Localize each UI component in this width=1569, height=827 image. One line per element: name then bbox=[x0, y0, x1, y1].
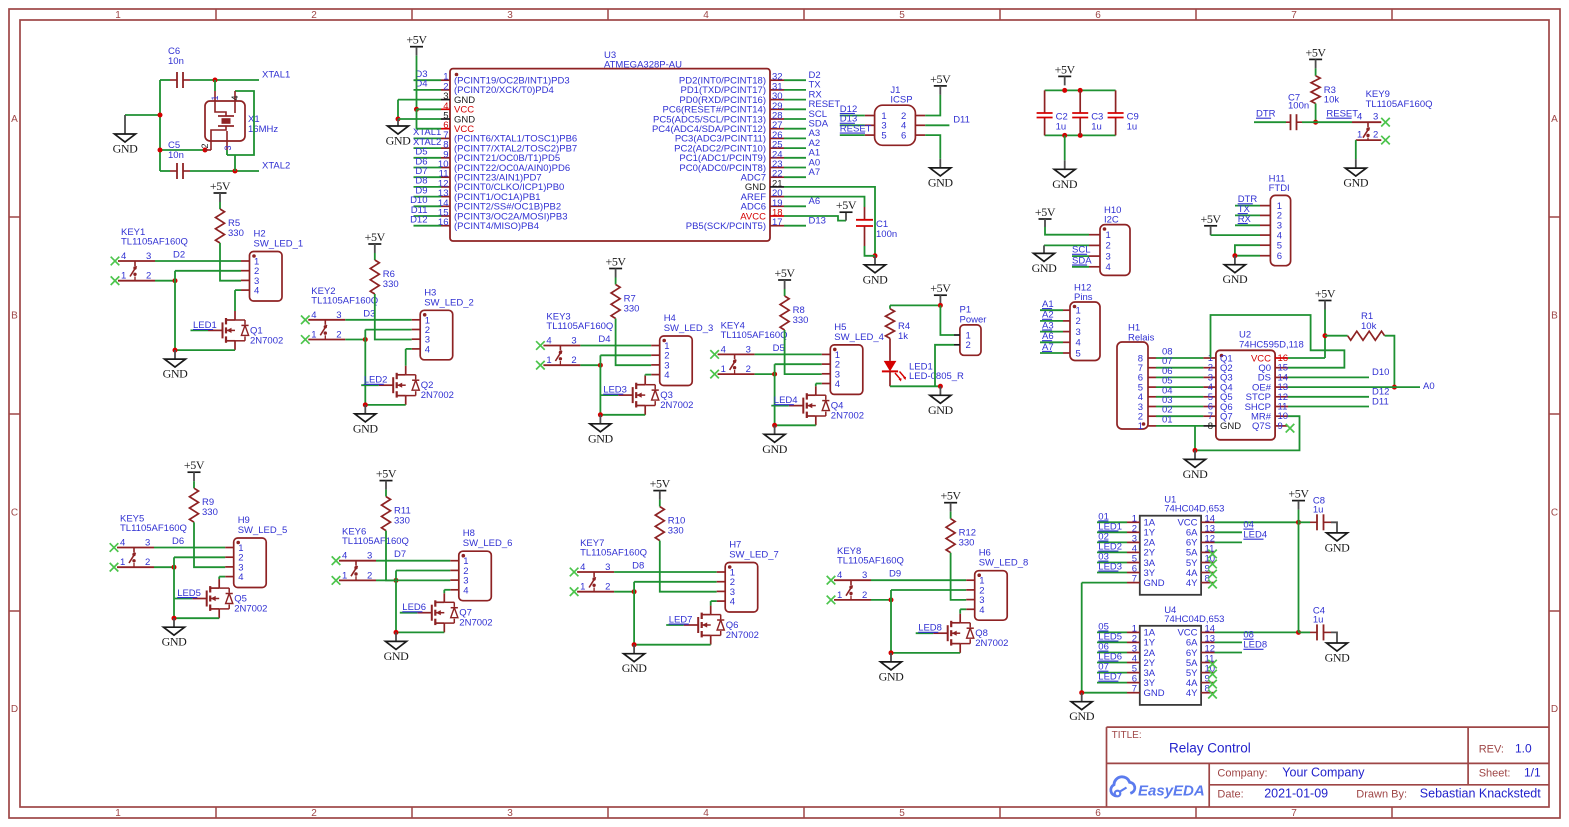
svg-text:2N7002: 2N7002 bbox=[250, 335, 283, 346]
svg-text:SW_LED_4: SW_LED_4 bbox=[834, 332, 884, 343]
svg-text:1u: 1u bbox=[1056, 122, 1067, 133]
svg-text:+5V: +5V bbox=[1315, 287, 1336, 301]
svg-text:TL1105AF160Q: TL1105AF160Q bbox=[580, 548, 647, 559]
svg-text:D6: D6 bbox=[172, 536, 184, 547]
svg-text:2: 2 bbox=[1106, 241, 1111, 252]
svg-text:Relay Control: Relay Control bbox=[1169, 740, 1251, 755]
svg-text:1u: 1u bbox=[1127, 122, 1138, 133]
svg-text:Power: Power bbox=[960, 314, 987, 325]
svg-text:+5V: +5V bbox=[376, 467, 397, 481]
svg-text:01: 01 bbox=[1162, 414, 1173, 425]
svg-text:2N7002: 2N7002 bbox=[459, 618, 492, 629]
svg-text:4: 4 bbox=[1076, 338, 1081, 349]
svg-text:2: 2 bbox=[311, 10, 317, 21]
svg-text:D10: D10 bbox=[1372, 367, 1389, 378]
svg-text:+5V: +5V bbox=[930, 72, 951, 86]
svg-text:TL1105AF160Q: TL1105AF160Q bbox=[546, 321, 613, 332]
svg-text:GND: GND bbox=[1032, 261, 1058, 275]
svg-text:Q7S: Q7S bbox=[1252, 421, 1271, 432]
svg-text:GND: GND bbox=[113, 142, 139, 156]
svg-text:2N7002: 2N7002 bbox=[975, 638, 1008, 649]
svg-text:GND: GND bbox=[928, 175, 954, 189]
svg-text:100n: 100n bbox=[876, 229, 897, 240]
svg-text:5: 5 bbox=[1076, 348, 1081, 359]
svg-text:D2: D2 bbox=[173, 250, 185, 261]
svg-text:PB5(SCK/PCINT5): PB5(SCK/PCINT5) bbox=[686, 221, 766, 232]
svg-text:1: 1 bbox=[1357, 130, 1362, 141]
svg-text:3: 3 bbox=[223, 145, 233, 150]
svg-text:2021-01-09: 2021-01-09 bbox=[1264, 787, 1328, 801]
svg-text:17: 17 bbox=[772, 217, 783, 228]
svg-text:D9: D9 bbox=[889, 569, 901, 580]
svg-text:330: 330 bbox=[202, 507, 218, 518]
svg-text:330: 330 bbox=[624, 304, 640, 315]
svg-text:TITLE:: TITLE: bbox=[1112, 730, 1142, 741]
svg-text:4: 4 bbox=[664, 370, 669, 381]
svg-text:330: 330 bbox=[383, 279, 399, 290]
svg-text:GND: GND bbox=[162, 635, 188, 649]
svg-text:SW_LED_5: SW_LED_5 bbox=[238, 525, 288, 536]
svg-text:D4: D4 bbox=[598, 334, 610, 345]
svg-text:GND: GND bbox=[1325, 651, 1351, 665]
svg-text:4: 4 bbox=[425, 344, 430, 355]
svg-text:C: C bbox=[11, 508, 18, 519]
svg-text:330: 330 bbox=[793, 315, 809, 326]
svg-text:4: 4 bbox=[254, 286, 259, 297]
svg-text:4: 4 bbox=[703, 10, 709, 21]
svg-text:GND: GND bbox=[863, 272, 889, 286]
svg-text:+5V: +5V bbox=[605, 255, 626, 269]
svg-text:4: 4 bbox=[703, 808, 709, 819]
svg-text:7: 7 bbox=[1132, 684, 1137, 695]
svg-text:B: B bbox=[11, 311, 18, 322]
svg-text:D12: D12 bbox=[410, 215, 427, 226]
svg-text:GND: GND bbox=[1222, 272, 1248, 286]
svg-text:GND: GND bbox=[1144, 688, 1165, 699]
svg-text:+5V: +5V bbox=[774, 266, 795, 280]
svg-text:SW_LED_6: SW_LED_6 bbox=[463, 538, 513, 549]
svg-text:2: 2 bbox=[311, 808, 317, 819]
svg-text:D: D bbox=[11, 704, 18, 715]
svg-text:D3: D3 bbox=[363, 308, 375, 319]
svg-text:4: 4 bbox=[1106, 262, 1111, 273]
svg-text:GND: GND bbox=[1343, 176, 1369, 190]
svg-text:+5V: +5V bbox=[184, 458, 205, 472]
svg-text:100n: 100n bbox=[1288, 100, 1309, 111]
svg-text:SW_LED_8: SW_LED_8 bbox=[979, 558, 1029, 569]
svg-text:GND: GND bbox=[1325, 540, 1351, 554]
svg-text:3: 3 bbox=[1106, 251, 1111, 262]
svg-text:SW_LED_7: SW_LED_7 bbox=[729, 550, 779, 561]
svg-text:1: 1 bbox=[1106, 230, 1111, 241]
svg-text:TL1105AF160Q: TL1105AF160Q bbox=[1366, 99, 1433, 110]
svg-text:9: 9 bbox=[1278, 421, 1283, 432]
svg-text:+5V: +5V bbox=[210, 179, 231, 193]
svg-text:GND: GND bbox=[588, 431, 614, 445]
svg-text:2N7002: 2N7002 bbox=[234, 604, 267, 615]
svg-text:5: 5 bbox=[899, 808, 905, 819]
svg-text:4: 4 bbox=[238, 572, 243, 583]
svg-text:TL1105AF160Q: TL1105AF160Q bbox=[121, 237, 188, 248]
svg-text:XTAL1: XTAL1 bbox=[262, 70, 290, 81]
svg-text:1: 1 bbox=[115, 10, 121, 21]
svg-text:2N7002: 2N7002 bbox=[421, 390, 454, 401]
svg-text:+5V: +5V bbox=[650, 477, 671, 491]
svg-text:1: 1 bbox=[210, 95, 220, 100]
svg-text:GND: GND bbox=[1144, 578, 1165, 589]
svg-text:1k: 1k bbox=[898, 331, 908, 342]
svg-text:74HC04D,653: 74HC04D,653 bbox=[1164, 614, 1224, 625]
svg-text:Drawn By:: Drawn By: bbox=[1356, 789, 1407, 801]
svg-text:6: 6 bbox=[1095, 808, 1101, 819]
svg-text:A0: A0 bbox=[1423, 381, 1435, 392]
svg-text:8: 8 bbox=[1208, 421, 1213, 432]
svg-text:SW_LED_2: SW_LED_2 bbox=[424, 297, 474, 308]
svg-text:EasyEDA: EasyEDA bbox=[1138, 783, 1205, 800]
svg-text:ATMEGA328P-AU: ATMEGA328P-AU bbox=[604, 60, 682, 71]
svg-text:330: 330 bbox=[228, 228, 244, 239]
svg-text:+5V: +5V bbox=[930, 281, 951, 295]
svg-text:10n: 10n bbox=[168, 150, 184, 161]
svg-text:4: 4 bbox=[1357, 112, 1362, 123]
svg-text:+5V: +5V bbox=[1200, 212, 1221, 226]
svg-text:2N7002: 2N7002 bbox=[726, 630, 759, 641]
svg-text:4Y: 4Y bbox=[1186, 688, 1198, 699]
svg-text:SW_LED_1: SW_LED_1 bbox=[254, 239, 304, 250]
svg-text:+5V: +5V bbox=[836, 198, 857, 212]
svg-text:1/1: 1/1 bbox=[1524, 765, 1541, 779]
svg-text:330: 330 bbox=[394, 516, 410, 527]
svg-text:GND: GND bbox=[879, 669, 905, 683]
svg-text:330: 330 bbox=[668, 526, 684, 537]
svg-text:D11: D11 bbox=[953, 115, 970, 126]
svg-text:6: 6 bbox=[1095, 10, 1101, 21]
svg-text:GND: GND bbox=[163, 367, 189, 381]
svg-text:D13: D13 bbox=[809, 216, 826, 227]
svg-text:1u: 1u bbox=[1091, 122, 1102, 133]
svg-text:2: 2 bbox=[1373, 130, 1378, 141]
svg-text:16MHz: 16MHz bbox=[248, 124, 278, 135]
svg-text:4: 4 bbox=[230, 95, 240, 100]
svg-text:TL1105AF160Q: TL1105AF160Q bbox=[311, 295, 378, 306]
svg-text:2N7002: 2N7002 bbox=[831, 411, 864, 422]
svg-text:GND: GND bbox=[1069, 709, 1095, 723]
svg-text:3: 3 bbox=[1076, 327, 1081, 338]
svg-text:+5V: +5V bbox=[1055, 62, 1076, 76]
svg-text:GND: GND bbox=[1220, 421, 1241, 432]
svg-text:5: 5 bbox=[881, 130, 886, 141]
svg-text:3: 3 bbox=[507, 10, 513, 21]
svg-text:(PCINT4/MISO)PB4: (PCINT4/MISO)PB4 bbox=[454, 221, 539, 232]
svg-text:4Y: 4Y bbox=[1186, 578, 1198, 589]
svg-text:ICSP: ICSP bbox=[890, 95, 912, 106]
svg-text:REV:: REV: bbox=[1479, 743, 1504, 755]
svg-text:1: 1 bbox=[1076, 306, 1081, 317]
svg-text:2: 2 bbox=[1076, 316, 1081, 327]
svg-text:74HC04D,653: 74HC04D,653 bbox=[1164, 504, 1224, 515]
svg-text:GND: GND bbox=[928, 403, 954, 417]
svg-text:2: 2 bbox=[966, 340, 971, 351]
svg-text:+5V: +5V bbox=[406, 33, 427, 47]
svg-text:GND: GND bbox=[353, 421, 379, 435]
svg-text:Your Company: Your Company bbox=[1282, 765, 1365, 779]
svg-text:Date:: Date: bbox=[1217, 789, 1243, 801]
svg-text:D: D bbox=[1551, 704, 1558, 715]
svg-text:5: 5 bbox=[1277, 241, 1282, 252]
svg-text:3: 3 bbox=[1373, 112, 1378, 123]
svg-text:D5: D5 bbox=[773, 343, 785, 354]
svg-text:10k: 10k bbox=[1324, 95, 1340, 106]
svg-text:2: 2 bbox=[200, 143, 210, 148]
svg-text:7: 7 bbox=[1291, 808, 1297, 819]
svg-text:GND: GND bbox=[1183, 467, 1209, 481]
svg-text:2N7002: 2N7002 bbox=[660, 400, 693, 411]
svg-text:5: 5 bbox=[899, 10, 905, 21]
svg-text:74HC595D,118: 74HC595D,118 bbox=[1239, 340, 1304, 351]
svg-text:D11: D11 bbox=[1372, 396, 1389, 407]
svg-text:A6: A6 bbox=[809, 196, 821, 207]
svg-text:4: 4 bbox=[463, 585, 468, 596]
svg-text:TL1105AF160Q: TL1105AF160Q bbox=[120, 523, 187, 534]
svg-text:330: 330 bbox=[959, 538, 975, 549]
svg-text:4: 4 bbox=[979, 605, 984, 616]
svg-text:1.0: 1.0 bbox=[1515, 741, 1532, 755]
svg-text:D7: D7 bbox=[394, 549, 406, 560]
svg-text:GND: GND bbox=[386, 134, 412, 148]
svg-text:GND: GND bbox=[1052, 177, 1078, 191]
svg-text:TL1105AF160Q: TL1105AF160Q bbox=[837, 556, 904, 567]
svg-text:+5V: +5V bbox=[1288, 487, 1309, 501]
svg-text:GND: GND bbox=[762, 442, 788, 456]
svg-text:4: 4 bbox=[835, 379, 840, 390]
svg-text:6: 6 bbox=[901, 130, 906, 141]
svg-text:GND: GND bbox=[622, 661, 648, 675]
svg-text:B: B bbox=[1551, 311, 1558, 322]
svg-text:Company:: Company: bbox=[1217, 767, 1267, 779]
svg-text:+5V: +5V bbox=[1305, 45, 1326, 59]
svg-text:10n: 10n bbox=[168, 56, 184, 67]
svg-text:7: 7 bbox=[1132, 574, 1137, 585]
svg-text:GND: GND bbox=[384, 649, 410, 663]
svg-text:1u: 1u bbox=[1313, 615, 1324, 626]
svg-text:TL1105AF160Q: TL1105AF160Q bbox=[342, 536, 409, 547]
svg-text:A: A bbox=[1551, 114, 1558, 125]
svg-text:4: 4 bbox=[730, 597, 735, 608]
svg-text:SW_LED_3: SW_LED_3 bbox=[664, 323, 714, 334]
svg-text:+5V: +5V bbox=[365, 230, 386, 244]
svg-text:+5V: +5V bbox=[1035, 205, 1056, 219]
svg-text:3: 3 bbox=[507, 808, 513, 819]
svg-text:A7: A7 bbox=[809, 167, 821, 178]
svg-text:LED-0805_R: LED-0805_R bbox=[909, 371, 964, 382]
svg-text:C: C bbox=[1551, 508, 1558, 519]
svg-text:1u: 1u bbox=[1313, 505, 1324, 516]
svg-text:FTDI: FTDI bbox=[1269, 183, 1290, 194]
svg-text:1: 1 bbox=[1138, 421, 1143, 432]
svg-text:1: 1 bbox=[115, 808, 121, 819]
svg-text:Sebastian Knackstedt: Sebastian Knackstedt bbox=[1420, 787, 1541, 801]
svg-text:Sheet:: Sheet: bbox=[1479, 767, 1511, 779]
svg-text:A: A bbox=[11, 114, 18, 125]
svg-text:XTAL2: XTAL2 bbox=[262, 161, 290, 172]
svg-text:+5V: +5V bbox=[940, 489, 961, 503]
svg-text:D8: D8 bbox=[632, 561, 644, 572]
svg-text:7: 7 bbox=[1291, 10, 1297, 21]
svg-text:6: 6 bbox=[1277, 251, 1282, 262]
svg-text:TL1105AF160Q: TL1105AF160Q bbox=[721, 330, 788, 341]
